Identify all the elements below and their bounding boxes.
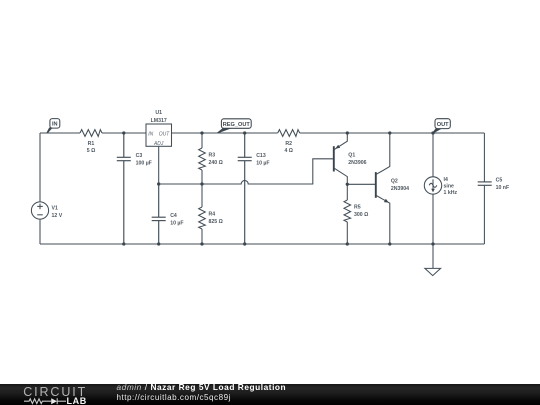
svg-text:LM317: LM317 [151, 118, 167, 124]
junction bottom rail at Q2 emitter [388, 242, 391, 245]
net flag REG_OUT [217, 119, 251, 134]
footer url text [117, 393, 231, 402]
svg-text:IN: IN [148, 131, 153, 137]
junction top rail at R3 [200, 131, 203, 134]
svg-text:IN: IN [52, 122, 58, 128]
junction bottom rail at ground [431, 242, 434, 245]
svg-text:4 Ω: 4 Ω [284, 148, 293, 154]
svg-text:Q2: Q2 [391, 179, 398, 185]
resistor R4 [199, 184, 206, 244]
svg-text:10 nF: 10 nF [496, 185, 510, 191]
svg-text:REG_OUT: REG_OUT [223, 122, 251, 128]
svg-text:C13: C13 [256, 153, 266, 159]
wire right branch up from bottom rail to C5 [483, 186, 485, 244]
junction top rail at Q2 collector [388, 131, 391, 134]
junction bottom rail at C3 [122, 242, 125, 245]
svg-text:2N3906: 2N3906 [348, 160, 366, 166]
svg-text:C3: C3 [136, 153, 143, 159]
svg-text:10 µF: 10 µF [170, 221, 183, 227]
wire bottom rail [40, 243, 484, 245]
svg-text:C5: C5 [496, 178, 503, 184]
svg-text:12 V: 12 V [52, 213, 63, 219]
wire U1 ADJ pin down [158, 146, 160, 184]
resistor R2 [278, 128, 300, 138]
junction bottom rail at R4 [200, 242, 203, 245]
transistor Q1 2N3906 [334, 133, 348, 184]
svg-text:OUT: OUT [437, 122, 449, 128]
svg-text:R3: R3 [209, 152, 216, 158]
net flag OUT [432, 119, 450, 134]
svg-text:C4: C4 [170, 213, 177, 219]
junction top rail at C3 [122, 131, 125, 134]
svg-text:5 Ω: 5 Ω [87, 148, 96, 154]
footer bar [0, 384, 540, 405]
regulator IC U1 LM317 [146, 124, 172, 147]
transistor Q2 2N3904 [376, 133, 390, 244]
wire ADJ rail with hop over C13 [159, 159, 334, 184]
svg-text:10 µF: 10 µF [256, 161, 269, 167]
svg-text:R1: R1 [88, 141, 95, 147]
svg-text:LAB: LAB [67, 396, 87, 405]
ground symbol [425, 244, 441, 276]
svg-text:Q1: Q1 [348, 153, 355, 159]
current source I4 [424, 133, 441, 244]
svg-text:100 µF: 100 µF [136, 161, 152, 167]
capacitor C13 [238, 133, 252, 244]
voltage source V1 [31, 202, 48, 219]
capacitor C4 [152, 184, 166, 244]
svg-text:R2: R2 [285, 141, 292, 147]
junction ADJ rail at C4 [157, 182, 160, 185]
arrow of I4 pointing down [431, 189, 435, 193]
svg-text:300 Ω: 300 Ω [354, 212, 368, 218]
junction node Q1 collector R5 Q2 base [346, 183, 349, 186]
svg-text:U1: U1 [155, 110, 162, 116]
junction ADJ rail at R3 R4 [200, 182, 203, 185]
junction bottom rail at C4 [157, 242, 160, 245]
wire top rail [40, 132, 484, 134]
wire Q1 collector node to Q2 base [347, 183, 376, 185]
resistor R5 [344, 184, 351, 244]
resistor R1 [80, 128, 102, 138]
footer title text [117, 383, 287, 392]
junction bottom rail at C13 [243, 242, 246, 245]
svg-text:R4: R4 [209, 212, 216, 218]
svg-text:OUT: OUT [159, 131, 171, 137]
junction top rail at I4 [431, 131, 434, 134]
svg-text:I4: I4 [444, 177, 448, 183]
svg-text:ADJ: ADJ [153, 141, 164, 147]
svg-text:sine: sine [444, 184, 454, 190]
junction top rail at Q1 emitter [346, 131, 349, 134]
capacitor C3 [117, 133, 131, 244]
wire left rail upper [39, 133, 41, 202]
junction bottom rail at R5 [346, 242, 349, 245]
wire left rail lower [39, 219, 41, 244]
svg-text:825 Ω: 825 Ω [209, 219, 223, 225]
junction top rail at C13 [243, 131, 246, 134]
svg-text:1 kHz: 1 kHz [444, 190, 458, 196]
CircuitLab logo [18, 384, 98, 405]
svg-text:R5: R5 [354, 204, 361, 210]
svg-text:2N3904: 2N3904 [391, 186, 409, 192]
resistor R3 [199, 133, 206, 184]
svg-text:V1: V1 [52, 206, 58, 212]
svg-text:240 Ω: 240 Ω [209, 160, 223, 166]
net flag IN [46, 119, 59, 134]
capacitor C5 [478, 182, 492, 185]
wire right branch down to C5 [483, 133, 485, 182]
